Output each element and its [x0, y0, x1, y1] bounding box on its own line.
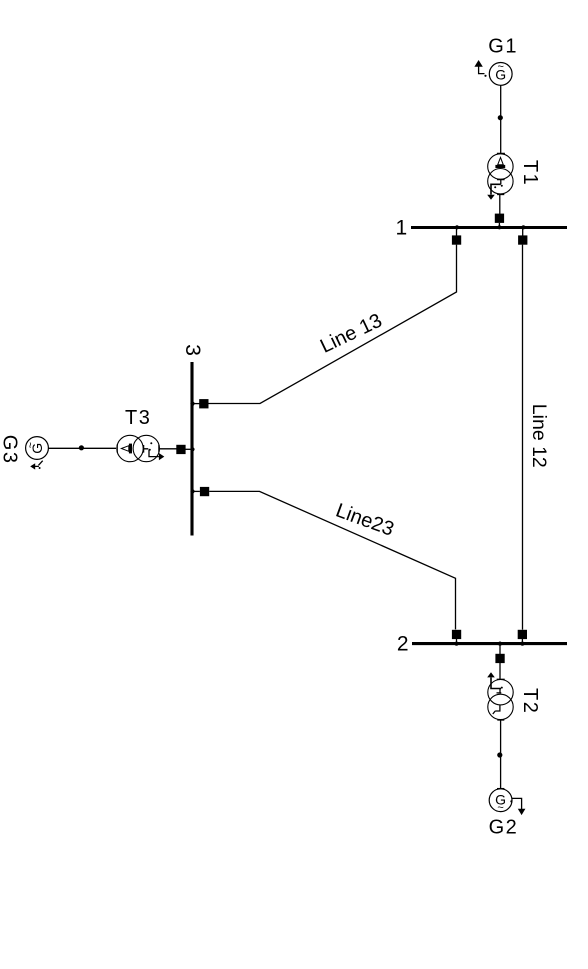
- T2 upper winding: [497, 689, 502, 694]
- wire line23 switch to bus2: [456, 639, 458, 643]
- wire T3 to switch: [159, 448, 177, 450]
- line 13 wire: [209, 245, 457, 404]
- generator G3: [26, 437, 49, 460]
- line 23 wire: [209, 491, 455, 629]
- svg-text:Line 12: Line 12: [528, 404, 550, 468]
- wire bus1 to line13 switch: [456, 228, 458, 236]
- wire G3 to T3: [49, 447, 117, 449]
- svg-text:~: ~: [497, 802, 503, 814]
- switch T3-bus3: [176, 445, 185, 454]
- switch line23-bus3: [200, 487, 209, 496]
- node bus1/line13: [455, 225, 459, 229]
- svg-text:G1: G1: [488, 35, 518, 57]
- line 12 wire: [522, 245, 524, 630]
- T1 delta winding: [498, 157, 504, 164]
- node bus3/line23: [190, 489, 194, 493]
- generator G2: [489, 789, 512, 812]
- svg-text:1: 1: [396, 217, 408, 240]
- bus 1: [411, 226, 567, 229]
- bus 2: [412, 642, 567, 645]
- wire T1 to switch: [499, 195, 501, 215]
- wire T3 switch to bus3: [186, 448, 192, 450]
- wire T2 switch to T2: [499, 663, 501, 679]
- node on G2 wire: [497, 752, 502, 757]
- node bus3/T3: [190, 447, 194, 451]
- wire T1 switch to bus1: [498, 223, 500, 227]
- node bus1/T1: [497, 225, 501, 229]
- T1 star winding: [497, 180, 505, 185]
- svg-text:~: ~: [497, 61, 503, 73]
- T3 delta winding: [121, 446, 128, 452]
- node bus1/line12: [521, 225, 525, 229]
- switch line13-bus3: [199, 399, 208, 408]
- switch T2-bus2: [495, 654, 504, 663]
- wire line13 switch to bus3: [193, 403, 200, 405]
- switch line13-bus1: [452, 235, 461, 244]
- switch line12-bus1: [518, 235, 527, 244]
- svg-text:~: ~: [25, 442, 37, 448]
- svg-text:T3: T3: [125, 407, 151, 429]
- switch line12-bus2: [518, 630, 527, 639]
- node bus2/T2: [498, 642, 502, 646]
- wire bus1 to line12 switch: [522, 228, 524, 236]
- transformer T3: [117, 435, 143, 461]
- wire line23 switch to bus3: [193, 490, 200, 492]
- T2 lower winding: [493, 705, 500, 714]
- node bus2/line23: [454, 642, 458, 646]
- wire T2 to G2: [500, 721, 502, 789]
- G1 out-arrow: [479, 66, 485, 73]
- generator G1: [489, 63, 512, 86]
- T3 star winding: [144, 445, 149, 453]
- svg-text:3: 3: [181, 344, 204, 356]
- T2 tap arrow: [491, 678, 501, 689]
- G3 out-arrow: [34, 461, 43, 467]
- node bus2/line12: [520, 642, 524, 646]
- svg-text:G3: G3: [0, 435, 21, 465]
- transformer T1: [488, 154, 513, 179]
- T1 tap arrow: [491, 184, 501, 194]
- svg-text:T2: T2: [519, 688, 541, 714]
- node bus3/line13: [190, 402, 194, 406]
- wire G1 to T1: [500, 85, 502, 153]
- svg-text:2: 2: [397, 633, 409, 656]
- transformer T2: [488, 680, 513, 705]
- node on G3 wire: [79, 445, 84, 450]
- switch T1-bus1: [495, 214, 504, 223]
- G2 out-arrow: [512, 798, 522, 809]
- wire line12 switch to bus2: [521, 639, 523, 643]
- bus 3: [190, 362, 193, 536]
- svg-text:G2: G2: [489, 817, 519, 839]
- node on G1 wire: [498, 115, 503, 120]
- wire bus2 to T2 switch: [499, 644, 501, 655]
- switch line23-bus2: [452, 630, 461, 639]
- svg-text:T1: T1: [519, 160, 541, 186]
- T3 tap arrow: [149, 450, 159, 457]
